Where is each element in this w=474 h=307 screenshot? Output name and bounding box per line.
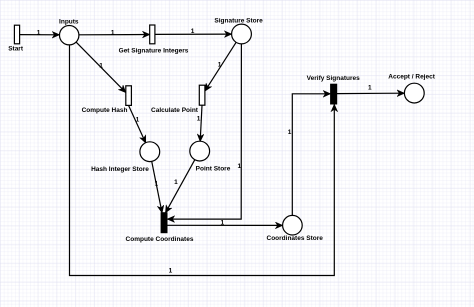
svg-text:Point Store: Point Store — [196, 165, 231, 172]
transition Calculate Point — [199, 85, 205, 105]
place Hash Integer Store — [140, 142, 160, 162]
wire Coordinates Store to Verify Signatures — [292, 94, 330, 216]
svg-text:Verify Signatures: Verify Signatures — [307, 75, 360, 82]
svg-text:1: 1 — [154, 181, 158, 188]
transition Start — [14, 25, 19, 44]
wire Hash Integer Store to Compute Coordinates — [152, 161, 162, 212]
svg-text:1: 1 — [197, 116, 201, 123]
place Point Store — [190, 141, 210, 161]
place Accept / Reject — [404, 83, 424, 103]
svg-text:1: 1 — [169, 268, 173, 275]
wire Inputs to Get Signature Integers — [79, 34, 150, 36]
svg-text:1: 1 — [111, 30, 115, 37]
place Coordinates Store — [283, 215, 303, 235]
place Signature Store — [232, 24, 252, 44]
wire Compute Hash to Hash Integer Store — [129, 106, 146, 143]
svg-text:Accept / Reject: Accept / Reject — [388, 74, 435, 81]
svg-text:Compute Coordinates: Compute Coordinates — [126, 236, 194, 243]
svg-text:Start: Start — [8, 45, 24, 52]
svg-text:1: 1 — [288, 129, 292, 136]
svg-text:1: 1 — [218, 62, 222, 69]
wire Verify Signatures to Accept / Reject — [337, 92, 404, 94]
wire Inputs to Verify Signatures (bottom loop) — [70, 45, 335, 276]
wire Compute Coordinates to Coordinates Store — [167, 224, 282, 226]
transition Verify Signatures — [331, 84, 337, 104]
svg-text:1: 1 — [174, 179, 178, 186]
svg-text:1: 1 — [99, 62, 103, 69]
svg-text:1: 1 — [37, 30, 41, 37]
svg-text:Compute Hash: Compute Hash — [82, 107, 128, 114]
svg-text:Calculate Point: Calculate Point — [151, 107, 199, 114]
svg-text:1: 1 — [191, 28, 195, 35]
svg-text:Inputs: Inputs — [59, 18, 79, 25]
svg-text:1: 1 — [220, 220, 224, 227]
wire Start to Inputs — [20, 34, 60, 36]
transition Get Signature Integers — [150, 25, 155, 44]
svg-text:1: 1 — [136, 116, 140, 123]
svg-text:Coordinates Store: Coordinates Store — [267, 235, 324, 242]
wire Calculate Point to Point Store — [200, 105, 202, 141]
wire Point Store to Compute Coordinates — [166, 160, 195, 213]
wire Inputs to Compute Hash — [76, 42, 126, 92]
svg-text:1: 1 — [237, 163, 241, 170]
svg-text:1: 1 — [368, 85, 372, 92]
svg-text:Hash Integer Store: Hash Integer Store — [91, 166, 149, 173]
transition Compute Hash — [126, 86, 132, 106]
place Inputs — [59, 26, 78, 45]
wire Signature Store to Compute Coordinates — [168, 44, 242, 219]
svg-text:Signature Store: Signature Store — [214, 17, 263, 24]
wire Signature Store to Calculate Point — [205, 42, 236, 91]
wire Get Signature Integers to Signature Store — [155, 33, 231, 35]
transition Compute Coordinates — [161, 213, 167, 233]
svg-text:Get Signature Integers: Get Signature Integers — [119, 47, 189, 54]
